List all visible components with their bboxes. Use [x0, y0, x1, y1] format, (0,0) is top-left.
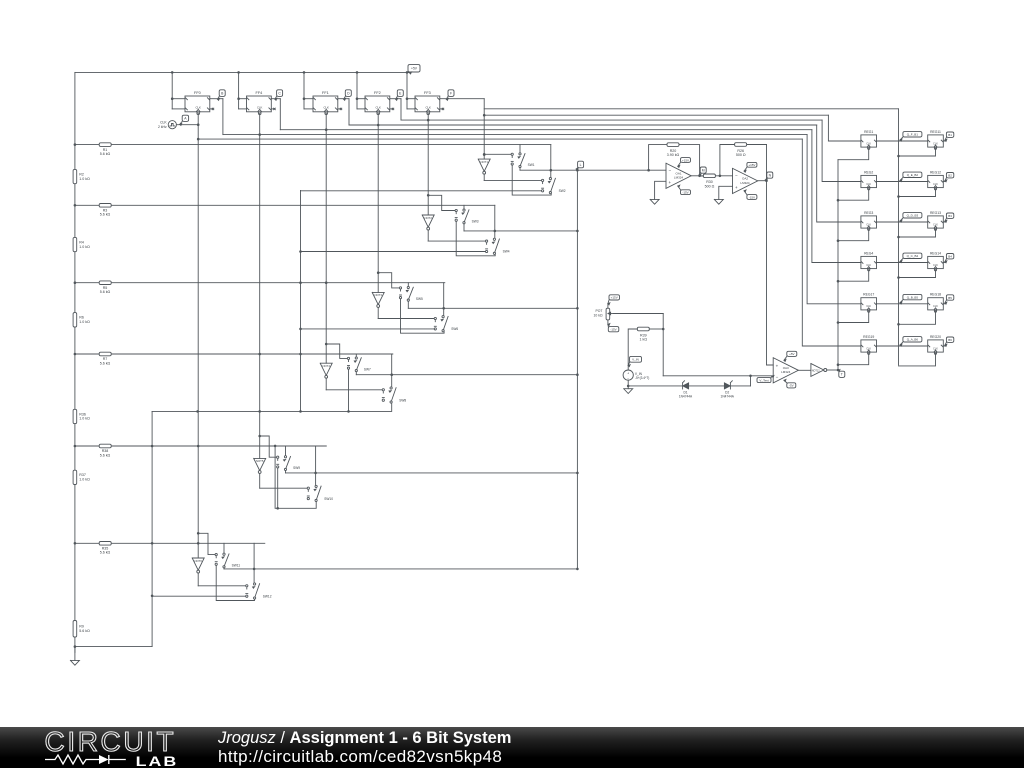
register REG20: [928, 335, 944, 355]
wire ladder row R7: [75, 353, 393, 355]
register REG1: [861, 130, 877, 150]
wire NOT6 output: [197, 573, 199, 586]
svg-text:CLK: CLK: [933, 347, 938, 350]
svg-text:REG20: REG20: [930, 335, 941, 339]
svg-text:B6: B6: [948, 338, 952, 342]
switch SW7: [347, 357, 349, 359]
svg-text:T: T: [841, 373, 843, 377]
wire SW3 lower throw loop: [456, 221, 495, 255]
svg-text:CLK: CLK: [866, 305, 871, 308]
resistor R5: [99, 281, 111, 285]
wire Q of FF4 to node C: [271, 98, 280, 100]
svg-text:REG14: REG14: [930, 251, 941, 255]
wire NOT4 output: [325, 378, 327, 390]
logo resistor-diode glyph: [45, 753, 129, 766]
resistor R2: [73, 169, 77, 183]
junction FF4 clk on bus: [427, 119, 430, 122]
ground OA1: [650, 199, 659, 204]
wire ladder row corner to SW4: [494, 205, 496, 238]
wire bus line 3: [401, 119, 822, 121]
wire R39 left to V_IN: [628, 329, 637, 370]
resistor R37: [73, 470, 77, 484]
svg-text:CIRCUIT: CIRCUIT: [45, 729, 177, 755]
svg-text:1.0 kΩ: 1.0 kΩ: [79, 245, 90, 249]
resistor R39: [637, 327, 649, 331]
node D flag: [344, 90, 352, 100]
svg-text:NOT3: NOT3: [374, 293, 382, 297]
wire REG17 clock: [838, 311, 869, 322]
svg-text:5.6 kΩ: 5.6 kΩ: [100, 551, 111, 555]
wire bit input to inverter NOT4: [325, 344, 327, 363]
wire ladder row R35: [75, 542, 265, 544]
op-amp OA1: [666, 163, 691, 188]
wire REG1 clock: [838, 148, 869, 159]
flip-flop FF2: [365, 91, 390, 115]
svg-text:NOT6: NOT6: [194, 559, 202, 563]
wire OA2 noninverting to ground: [719, 186, 733, 199]
inverter NOT3: [372, 292, 384, 304]
wire summing node to OA1 inverting input: [577, 169, 666, 171]
pin Qbar stub of FF2: [390, 108, 393, 110]
wire ladder row corner to SW6: [443, 283, 445, 316]
svg-text:REG12: REG12: [930, 170, 941, 174]
node T flag: [838, 370, 845, 378]
svg-text:Q_E_B2: Q_E_B2: [907, 173, 919, 177]
wire FF1 clock vertical / bit B: [259, 114, 261, 437]
svg-text:+5V: +5V: [789, 352, 794, 356]
inverter NOT1: [478, 159, 490, 171]
wire SW3 top terminal to ladder row: [463, 205, 465, 209]
node A flag: [180, 115, 189, 125]
svg-text:5.6 kΩ: 5.6 kΩ: [100, 213, 111, 217]
svg-text:NOT4: NOT4: [322, 364, 330, 368]
wire Q of FF3 to node F: [440, 98, 484, 100]
wire Q of FF1 to node D: [338, 98, 349, 100]
svg-text:CLK: CLK: [866, 142, 871, 145]
svg-text:CLK: CLK: [323, 106, 329, 110]
wire ladder row corner to SW10: [315, 446, 317, 485]
register REG17: [861, 293, 877, 313]
svg-text:5.6 kΩ: 5.6 kΩ: [100, 152, 111, 156]
svg-text:FF3: FF3: [424, 91, 431, 95]
wire bus line 1: [484, 108, 898, 110]
power flag -15V of POT: [608, 324, 619, 332]
wire SW5 lower throw loop: [401, 299, 445, 333]
wire FF4 clock vertical / bit E: [427, 114, 429, 196]
svg-text:CLK: CLK: [195, 106, 201, 110]
wire ladder bottom tap: [74, 645, 77, 648]
switch SW12: [246, 585, 248, 587]
switch SW11: [215, 554, 217, 556]
wire REG3 Q to REG13 D: [877, 221, 928, 223]
svg-text:1.0 kΩ: 1.0 kΩ: [79, 177, 90, 181]
register REG12: [928, 170, 944, 190]
svg-text:REG2: REG2: [864, 170, 873, 174]
svg-text:REG3: REG3: [864, 211, 873, 215]
wire REG18 clock: [899, 311, 936, 324]
svg-text:REG13: REG13: [930, 211, 941, 215]
wire Q of FF2 to node E: [390, 98, 401, 100]
svg-text:Q_C_B4: Q_C_B4: [907, 254, 919, 258]
svg-text:-15V: -15V: [749, 195, 755, 199]
resistor R26: [735, 143, 747, 147]
svg-text:2 kHz: 2 kHz: [158, 125, 167, 129]
inverter NOT6: [192, 558, 204, 570]
wire NOT5 output: [259, 473, 261, 488]
wire SW11 top terminal to ladder row: [223, 543, 225, 553]
resistor R9: [73, 621, 77, 638]
wire SW7 lower throw to return line: [348, 369, 350, 411]
wire +5V drop to FF4 inputs: [238, 72, 240, 109]
junction FF0 clk on bus: [197, 138, 200, 141]
svg-text:CLK: CLK: [866, 183, 871, 186]
node F flag: [446, 90, 454, 100]
switch SW8: [382, 389, 384, 391]
svg-text:L: L: [580, 163, 582, 167]
wire REG18 Q stub: [943, 303, 946, 305]
wire REG12 clock: [899, 189, 936, 197]
svg-text:CLK: CLK: [866, 223, 871, 226]
wire termination vertical x152: [151, 411, 153, 646]
node Q_F_B1 flag: [900, 132, 922, 141]
wire REG14 Q stub: [943, 262, 946, 264]
wire OA2 output to OA3: [758, 180, 767, 182]
svg-text:+: +: [668, 180, 671, 185]
wire +5V drop to FF0 inputs: [171, 72, 173, 109]
svg-text:B1: B1: [948, 133, 952, 137]
wire bus feed to REG2: [822, 120, 861, 181]
wire ladder row corner to SW12: [253, 543, 255, 583]
svg-text:CLK: CLK: [933, 264, 938, 267]
svg-text:+: +: [735, 185, 738, 190]
switch SW4: [486, 240, 488, 242]
wire SW3 common to summing node: [463, 224, 465, 231]
node L flag: [576, 161, 583, 170]
switch SW2: [542, 179, 544, 181]
switch SW1: [511, 153, 513, 155]
wire FF2 clock vertical / bit C: [325, 114, 327, 345]
svg-text:-15V: -15V: [682, 191, 688, 195]
svg-text:REG18: REG18: [930, 293, 941, 297]
wire SW9 common to summing node: [285, 471, 287, 473]
svg-text:B5: B5: [948, 296, 952, 300]
wire REG17 Q to REG18 D: [877, 303, 928, 305]
svg-text:NOT1: NOT1: [480, 160, 488, 164]
svg-text:1 kΩ: 1 kΩ: [640, 338, 648, 342]
wire left ladder rail top segment: [74, 72, 76, 144]
node Q_D_B3 flag: [900, 213, 922, 222]
svg-text:SW9: SW9: [293, 466, 300, 470]
svg-text:LM324: LM324: [740, 181, 750, 185]
svg-text:1.0 kΩ: 1.0 kΩ: [79, 320, 90, 324]
svg-text:CLK: CLK: [933, 223, 938, 226]
wire bit input jog to SW9: [260, 436, 278, 457]
wire bit input jog to SW7: [326, 344, 348, 358]
flip-flop FF3: [415, 91, 440, 115]
junction row7 and ground chain: [299, 353, 302, 356]
wire REG14 clock: [899, 270, 936, 278]
pin Qbar stub of FF1: [338, 108, 341, 110]
wire OA1 feedback: [649, 145, 667, 171]
wire FF0 clock vertical / bit A: [197, 114, 199, 534]
register REG13: [928, 211, 944, 231]
svg-text:SW2: SW2: [559, 189, 566, 193]
resistor R20: [667, 143, 679, 147]
wire +5V top rail: [75, 71, 410, 73]
svg-text:R4: R4: [79, 240, 84, 244]
node B1 flag: [945, 132, 954, 141]
svg-text:CLK: CLK: [425, 106, 431, 110]
wire cell4 return line: [152, 402, 392, 411]
power flag -15V of OA2: [744, 190, 757, 199]
svg-text:R36: R36: [79, 412, 86, 416]
svg-text:CLK: CLK: [257, 106, 263, 110]
register REG3: [861, 211, 877, 231]
wire V_IN bottom to ground: [627, 380, 629, 389]
svg-text:LM324: LM324: [781, 370, 791, 374]
wire bus feed to REG4: [812, 130, 861, 263]
wire bus line 2: [484, 114, 828, 116]
svg-text:+15V: +15V: [611, 296, 618, 300]
inverter NOT4: [320, 363, 332, 375]
switch SW6: [434, 317, 436, 319]
switch SW9: [277, 456, 279, 458]
wire feed to SW12 lower throw: [152, 595, 246, 597]
svg-text:+15V: +15V: [748, 163, 755, 167]
wire REG11 clock: [899, 148, 936, 156]
svg-text:−: −: [735, 173, 738, 178]
diode D2: [724, 383, 730, 389]
wire SW1 common to summing node: [519, 168, 521, 171]
resistor R6: [73, 313, 77, 327]
wire REG12 Q stub: [943, 181, 946, 183]
wire left ladder rail: [74, 145, 76, 653]
flip-flop FF0: [185, 91, 210, 115]
svg-text:V_IN: V_IN: [632, 358, 639, 362]
wire R30 to OA2 inverting input: [715, 175, 732, 177]
node Q_B_B5 flag: [900, 294, 922, 304]
wire pot wiper vertical to comparator: [662, 314, 664, 376]
svg-text:REG11: REG11: [930, 130, 941, 134]
wire NOT3 output: [377, 307, 379, 318]
wire REG4 Q to REG14 D: [877, 262, 928, 264]
svg-text:NOT5: NOT5: [256, 459, 264, 463]
wire bit input to inverter NOT6: [197, 533, 199, 558]
svg-text:B2: B2: [948, 174, 952, 178]
svg-text:+: +: [627, 372, 629, 376]
wire R39 right: [649, 328, 663, 330]
svg-text:1N4744A: 1N4744A: [679, 395, 693, 399]
svg-text:F: F: [450, 91, 452, 95]
svg-text:NOT12: NOT12: [812, 369, 820, 372]
resistor R4: [73, 237, 77, 251]
wire SW5 common to summing node: [407, 301, 409, 308]
wire OA1 output: [691, 175, 703, 177]
svg-text:3.90 kΩ: 3.90 kΩ: [667, 153, 680, 157]
wire OA1 noninverting to ground: [655, 181, 666, 199]
logo wordmark CIRCUIT: [44, 729, 184, 755]
junction row5 and bit C vertical: [325, 281, 328, 284]
resistor R1: [99, 143, 111, 147]
node Q_E_B2 flag: [900, 172, 922, 181]
wire SW7 top terminal to ladder row: [355, 354, 357, 357]
wire ladder row R3: [75, 204, 495, 206]
op-amp OA2: [733, 168, 758, 193]
wire bit input jog to SW11: [198, 533, 216, 554]
wire bit input to inverter NOT5: [259, 436, 261, 458]
svg-text:LM324: LM324: [674, 176, 684, 180]
wire feed to SW2 lower throw: [301, 190, 542, 192]
wire feed to SW4 lower throw: [301, 251, 486, 253]
wire SW9 top terminal to ladder row: [285, 446, 287, 456]
wire SW9 lower throw to return line: [277, 468, 279, 508]
clock source CLK 2kHz: [168, 121, 176, 129]
svg-text:5.6 kΩ: 5.6 kΩ: [100, 290, 111, 294]
op-amp OA3: [773, 358, 798, 383]
svg-text:SW4: SW4: [503, 250, 510, 254]
resistor R38: [99, 444, 111, 448]
wire bus line 6: [223, 134, 807, 136]
wire REG19 Q to REG20 D: [877, 345, 928, 347]
svg-text:CLK: CLK: [933, 142, 938, 145]
wire SW1 top terminal to ladder row: [519, 145, 521, 153]
svg-text:R9: R9: [79, 625, 84, 629]
svg-text:SW1: SW1: [528, 163, 535, 167]
wire +5V drop to FF3 inputs: [406, 72, 408, 109]
resistor R3: [99, 204, 111, 208]
svg-text:M: M: [702, 168, 705, 172]
svg-text:B4: B4: [948, 255, 952, 259]
diode D1: [683, 383, 689, 389]
node M flag: [699, 167, 706, 176]
junction FF1 clk on bus: [258, 133, 261, 136]
wire bit input jog to SW5: [378, 273, 400, 288]
wire cell5 return line: [275, 446, 316, 508]
pin Qbar stub of FF3: [440, 108, 443, 110]
wire bus feed to REG1: [828, 115, 861, 141]
svg-text:10 kΩ: 10 kΩ: [594, 314, 603, 318]
wire bus feed to REG17: [807, 135, 861, 304]
svg-text:1.0 kΩ: 1.0 kΩ: [79, 417, 90, 421]
wire OA2 feedback: [720, 145, 735, 176]
flip-flop FF4: [247, 91, 272, 115]
wire Q of FF0 to node B: [210, 98, 223, 100]
wire OA3 output to NOT12: [798, 369, 811, 371]
svg-text:1N4744A: 1N4744A: [721, 395, 735, 399]
power flag +5V of OA3: [784, 351, 797, 361]
wire bus line 5: [280, 129, 812, 131]
wire REG1 Q to REG11 D: [877, 140, 928, 142]
svg-text:CLK: CLK: [933, 183, 938, 186]
wire SW1 lower throw loop: [512, 165, 551, 195]
svg-text:FF2: FF2: [374, 91, 381, 95]
svg-text:FF4: FF4: [256, 91, 263, 95]
svg-text:5.6 kΩ: 5.6 kΩ: [79, 629, 90, 633]
register REG18: [928, 293, 944, 313]
svg-text:REG4: REG4: [864, 251, 873, 255]
svg-text:500 Ω: 500 Ω: [705, 184, 715, 188]
wire pot bottom pin: [607, 320, 609, 325]
svg-text:NOT2: NOT2: [424, 216, 432, 220]
svg-text:−: −: [668, 168, 671, 173]
svg-text:5.6 kΩ: 5.6 kΩ: [100, 453, 111, 457]
node B5 flag: [945, 295, 954, 304]
wire REG clock bus vertical: [898, 109, 900, 365]
pin Qbar stub of FF4: [271, 108, 274, 110]
svg-text:FF0: FF0: [194, 91, 201, 95]
inverter NOT2: [422, 215, 434, 227]
svg-text:R37: R37: [79, 473, 86, 477]
wire REG13 Q stub: [943, 221, 946, 223]
svg-text:SW10: SW10: [324, 497, 333, 501]
inverter NOT5: [254, 458, 266, 470]
wire SW5 top terminal to ladder row: [407, 283, 409, 287]
power flag +15V of OA1: [678, 158, 691, 168]
svg-text:500 Ω: 500 Ω: [736, 153, 746, 157]
svg-text:CLK: CLK: [933, 305, 938, 308]
wire REG20 Q stub: [943, 345, 946, 347]
wire bit input jog to SW3: [428, 195, 456, 210]
svg-text:REG19: REG19: [863, 335, 874, 339]
resistor R35: [99, 542, 111, 546]
ground OA2: [714, 199, 723, 204]
footer title text: [218, 729, 511, 748]
node V_IN flag: [628, 356, 641, 366]
wire bus line 7: [198, 138, 802, 140]
node B3 flag: [945, 213, 954, 222]
wire summing collector vertical: [576, 170, 578, 569]
register REG4: [861, 251, 877, 271]
svg-text:SW12: SW12: [263, 594, 272, 598]
wire NOT12 output to node T: [827, 369, 838, 371]
logo wordmark LAB: [135, 754, 178, 769]
svg-text:REG1: REG1: [864, 130, 873, 134]
wire feed to SW6 lower throw: [301, 328, 435, 330]
svg-text:-5V: -5V: [789, 384, 794, 388]
switch SW10: [307, 487, 309, 489]
svg-text:CLK: CLK: [375, 106, 381, 110]
wire SW7 common to summing node: [355, 372, 357, 375]
ground V_IN: [624, 389, 633, 394]
svg-text:+: +: [776, 363, 779, 368]
svg-text:REG17: REG17: [863, 293, 874, 297]
wire REG4 clock: [838, 270, 869, 281]
wire NOT2 output: [427, 230, 429, 241]
flip-flop FF1: [313, 91, 338, 115]
node E flag: [396, 90, 404, 100]
svg-text:5.6 kΩ: 5.6 kΩ: [100, 361, 111, 365]
wire REG3 clock: [838, 229, 869, 240]
svg-text:−: −: [776, 375, 779, 380]
switch SW3: [455, 209, 457, 211]
wire ladder row R1: [75, 144, 551, 146]
node Q_C_B4 flag: [900, 253, 922, 263]
ground ladder: [74, 647, 76, 661]
register REG11: [928, 130, 944, 150]
power flag +15V of POT: [608, 295, 620, 305]
wire ladder row R5: [75, 282, 445, 284]
junction FF2 clk on bus: [325, 128, 328, 131]
svg-text:Q_A_B6: Q_A_B6: [907, 338, 919, 342]
node V_Test flag: [757, 376, 774, 383]
register REG14: [928, 251, 944, 271]
svg-text:V_Test: V_Test: [759, 378, 768, 382]
power flag -15V of OA1: [678, 185, 691, 194]
power flag +15V of OA2: [744, 162, 757, 172]
node C flag: [275, 90, 283, 100]
wire +5V drop to FF1 inputs: [303, 72, 305, 109]
svg-text:B3: B3: [948, 214, 952, 218]
